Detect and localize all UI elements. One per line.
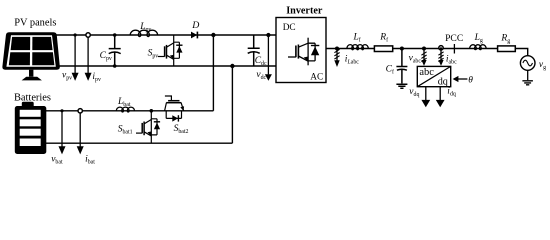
svg-text:Inverter: Inverter: [286, 6, 323, 17]
svg-text:θ: θ: [468, 75, 473, 85]
svg-text:D: D: [191, 20, 199, 31]
svg-text:abc: abc: [419, 67, 434, 78]
svg-text:AC: AC: [310, 72, 323, 82]
svg-text:DC: DC: [283, 23, 296, 33]
svg-text:PCC: PCC: [445, 33, 463, 44]
svg-text:Batteries: Batteries: [14, 92, 51, 103]
svg-text:PV panels: PV panels: [14, 18, 56, 29]
